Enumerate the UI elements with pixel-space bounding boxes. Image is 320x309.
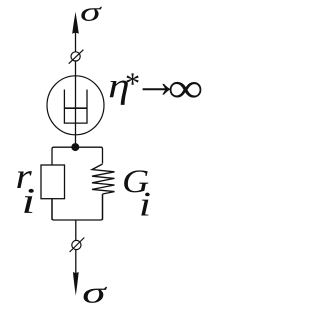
spring G_i zigzag bbox=[92, 164, 115, 194]
label subscript i of G bbox=[141, 193, 149, 216]
arrowhead of top stress arrow bbox=[72, 12, 79, 34]
dashpot piston plate bbox=[64, 107, 87, 109]
right wire below spring bbox=[102, 194, 104, 220]
label arrow (tends to) bbox=[143, 84, 171, 95]
dashpot cup left wall bbox=[63, 90, 65, 124]
wire: central vertical axis (top arrow shaft down to node dot) bbox=[75, 28, 77, 147]
wire: bottom stem bbox=[75, 220, 77, 276]
dashpot cup bottom bbox=[64, 122, 88, 124]
sigma label (bottom) bbox=[84, 287, 108, 303]
label eta (viscosity symbol) bbox=[110, 81, 128, 105]
label r (friction element) bbox=[17, 171, 32, 188]
damper enclosure circle U (viscous element) bbox=[47, 76, 104, 135]
label G (shear modulus) bbox=[124, 170, 148, 192]
left wire below friction block bbox=[51, 199, 53, 220]
arrowhead of bottom stress arrow bbox=[73, 272, 79, 296]
dashpot cup right wall bbox=[86, 90, 88, 124]
node dot (junction) bbox=[71, 143, 79, 151]
friction block r_i (rectangle) bbox=[41, 165, 65, 199]
node symbol (top circle-with-slash) bbox=[71, 52, 80, 61]
label subscript i of r bbox=[24, 189, 34, 213]
node symbol (bottom circle-with-slash) bbox=[72, 240, 81, 249]
label infinity bbox=[170, 82, 202, 98]
top rail wire of parallel branch bbox=[52, 147, 103, 165]
label superscript asterisk of eta bbox=[126, 73, 138, 84]
bottom rail wire of parallel branch bbox=[52, 194, 103, 220]
sigma label (top) bbox=[81, 7, 102, 21]
